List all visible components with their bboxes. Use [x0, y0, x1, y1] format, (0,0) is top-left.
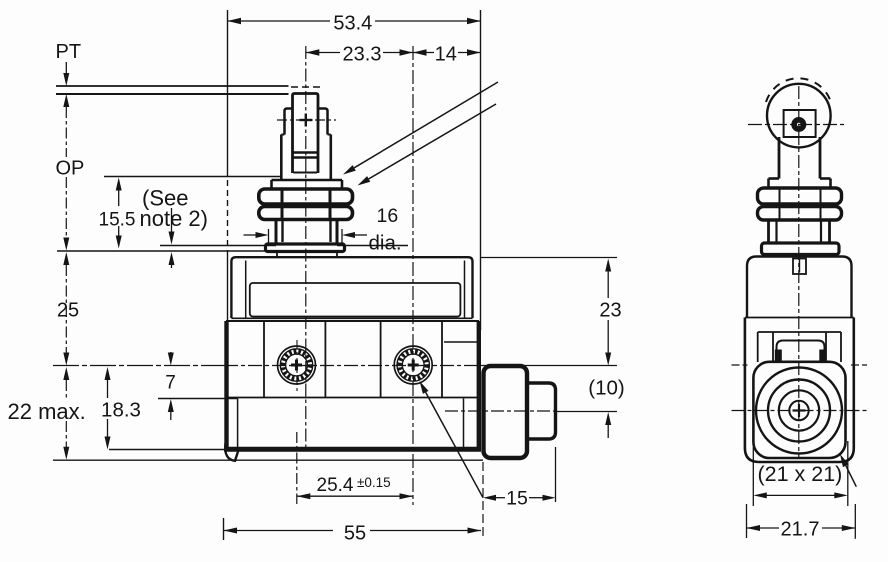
band groove 1: [263, 321, 265, 398]
lower stem: [767, 220, 770, 244]
svg-text:(10): (10): [588, 377, 624, 400]
plunger vertical centerline: [305, 46, 307, 449]
connector centerline extension: [556, 411, 617, 413]
dim 16 dia ticks: [268, 229, 270, 243]
nub: [793, 259, 806, 275]
connector centerline: [445, 410, 556, 412]
hex ring 1: [259, 189, 353, 204]
hole centerline: [732, 410, 869, 412]
window frame: [758, 332, 841, 362]
dim 23 right: [481, 258, 617, 366]
dim 7: [168, 352, 174, 420]
tick line 18.3 bottom: [109, 449, 225, 451]
dim 25.4: [297, 432, 413, 504]
hex ring 2: [259, 207, 353, 220]
lower body step right: [463, 399, 465, 450]
PT free position lines: [56, 85, 289, 87]
roller pin centerline: [277, 119, 336, 121]
dim (10): [605, 412, 611, 438]
pin cross: [300, 119, 313, 121]
band groove 3: [380, 321, 382, 398]
svg-text:15.5: 15.5: [99, 210, 136, 231]
screw leader: [420, 381, 484, 498]
ring 2: [758, 207, 842, 221]
mounting band top: [226, 320, 479, 322]
svg-text:14: 14: [435, 44, 457, 66]
svg-text:±0.15: ±0.15: [357, 475, 391, 490]
svg-text:53.4: 53.4: [333, 13, 372, 35]
band groove 2: [324, 321, 326, 398]
body horizontal centerline: [53, 365, 224, 367]
stem: [778, 137, 781, 179]
dim 55: [224, 518, 482, 540]
dim 14: [413, 43, 481, 61]
band bottom: [226, 397, 479, 399]
svg-text:7: 7: [165, 373, 176, 394]
top plate outline: [231, 257, 472, 318]
step shoulders: [769, 177, 780, 180]
head outline: [747, 257, 852, 318]
clevis arm left: [285, 109, 293, 135]
dim 23.3: [306, 43, 413, 61]
dim 15.5: [116, 178, 122, 249]
screw 2: [394, 346, 432, 384]
svg-text:(21 x 21): (21 x 21): [757, 462, 842, 486]
ring 1: [758, 188, 842, 204]
flange 16 dia: [266, 244, 345, 252]
svg-text:25.4: 25.4: [317, 475, 354, 496]
left foot: [225, 443, 238, 461]
svg-text:OP: OP: [56, 158, 85, 180]
phantom dash above roller: [291, 86, 320, 88]
svg-text:15: 15: [506, 488, 528, 510]
screw plane stubs: [732, 364, 748, 366]
reference line 23.3/14 (dash-dot): [412, 46, 414, 505]
guide corner blobs: [775, 350, 782, 363]
tick line 7/step: [158, 398, 238, 400]
dim 53.4: [228, 11, 481, 30]
screw 1: [278, 340, 316, 391]
svg-text:note 2): note 2): [140, 206, 209, 231]
callout leader 1: [343, 82, 498, 175]
guide front: [777, 341, 825, 362]
body bottom thick: [224, 447, 481, 452]
band groove 4: [441, 321, 443, 398]
mounting surface line 22max bottom: [53, 459, 483, 461]
roller (side view): [293, 94, 319, 174]
OP line: [104, 176, 281, 178]
svg-text:16: 16: [377, 205, 399, 227]
body left edge: [224, 321, 228, 450]
svg-text:23: 23: [599, 300, 621, 322]
PT dimension line chain: [63, 62, 69, 460]
dim 18.3: [105, 367, 111, 450]
head/body divide: [745, 317, 854, 319]
ext line 53.4 right: [480, 10, 482, 330]
seat line: [57, 250, 266, 252]
dim 21x21: [753, 441, 848, 506]
21x21 leader: [840, 454, 856, 487]
neck: [276, 252, 278, 258]
svg-text:PT: PT: [56, 41, 82, 63]
top plate inner chamfer right: [464, 261, 466, 318]
svg-text:21.7: 21.7: [781, 519, 820, 541]
roller centerline: [748, 124, 844, 126]
dim 16 dia arrows: [244, 232, 368, 238]
top plate inner chamfer left: [245, 261, 247, 318]
svg-text:55: 55: [344, 523, 366, 545]
base flange: [762, 243, 840, 255]
connector tip block: [527, 383, 556, 439]
label plate: [250, 283, 461, 317]
svg-text:22 max.: 22 max.: [8, 399, 86, 424]
circles: [756, 368, 842, 454]
square plate 21x21: [753, 362, 845, 458]
step band: [272, 179, 343, 182]
ext line 53.4 left: [227, 10, 229, 170]
note leader arrow: [169, 208, 175, 268]
main body outline: [745, 318, 854, 463]
connector big block: [484, 366, 528, 458]
plunger guide: [281, 134, 284, 136]
roller pin: [791, 117, 806, 132]
main vertical centerline: [798, 86, 800, 458]
svg-text:18.3: 18.3: [101, 399, 141, 422]
top plate bottom line: [231, 317, 472, 319]
roller circle: [767, 84, 831, 148]
body right edge: [477, 321, 481, 450]
callout leader 2: [358, 104, 497, 186]
flange top line: [160, 245, 276, 247]
text 22 max: [5, 400, 87, 420]
dim 21.7: [747, 504, 856, 539]
svg-text:25: 25: [57, 300, 79, 322]
roller phantom dashes: [766, 78, 831, 102]
stem: [275, 220, 278, 245]
body step above connector: [444, 341, 477, 343]
dim 15: [483, 447, 556, 536]
clevis arm right: [318, 109, 328, 135]
lower body step left: [237, 399, 239, 450]
svg-text:dia.: dia.: [369, 232, 402, 255]
svg-text:23.3: 23.3: [343, 44, 382, 66]
clevis front: [784, 110, 816, 137]
